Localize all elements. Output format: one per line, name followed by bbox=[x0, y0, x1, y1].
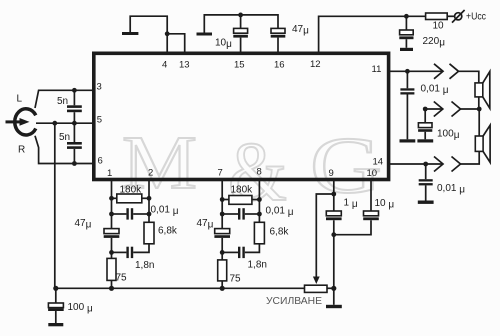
svg-text:180k: 180k bbox=[231, 185, 254, 196]
svg-text:14: 14 bbox=[373, 157, 384, 168]
svg-text:1,8n: 1,8n bbox=[135, 260, 154, 271]
svg-text:6,8k: 6,8k bbox=[158, 226, 178, 237]
svg-text:10μ: 10μ bbox=[215, 38, 232, 51]
svg-text:УСИЛВАНЕ: УСИЛВАНЕ bbox=[266, 296, 322, 307]
svg-text:1: 1 bbox=[107, 168, 112, 179]
svg-text:15: 15 bbox=[234, 60, 245, 71]
svg-text:0,01 μ: 0,01 μ bbox=[151, 205, 179, 218]
svg-text:7: 7 bbox=[218, 168, 223, 179]
svg-text:0,01 μ: 0,01 μ bbox=[437, 183, 465, 196]
svg-text:R: R bbox=[18, 145, 25, 156]
svg-text:9: 9 bbox=[329, 168, 334, 179]
svg-text:0,01 μ: 0,01 μ bbox=[421, 84, 449, 97]
svg-text:1 μ: 1 μ bbox=[344, 198, 358, 211]
svg-text:4: 4 bbox=[162, 60, 167, 71]
svg-text:6: 6 bbox=[98, 156, 103, 167]
svg-text:8: 8 bbox=[257, 167, 262, 178]
svg-text:5: 5 bbox=[97, 115, 102, 126]
svg-text:47μ: 47μ bbox=[75, 218, 92, 231]
svg-text:5n: 5n bbox=[57, 96, 68, 107]
svg-text:10: 10 bbox=[367, 168, 378, 179]
svg-text:1,8n: 1,8n bbox=[248, 260, 267, 271]
svg-text:0,01 μ: 0,01 μ bbox=[266, 206, 294, 219]
svg-text:6,8k: 6,8k bbox=[270, 227, 290, 238]
svg-text:47μ: 47μ bbox=[292, 24, 309, 37]
svg-text:75: 75 bbox=[116, 273, 128, 284]
svg-text:13: 13 bbox=[179, 60, 190, 71]
svg-text:47μ: 47μ bbox=[197, 218, 214, 231]
svg-text:220μ: 220μ bbox=[423, 36, 446, 49]
svg-text:10 μ: 10 μ bbox=[375, 198, 395, 211]
svg-text:100 μ: 100 μ bbox=[68, 302, 93, 315]
svg-text:10: 10 bbox=[433, 21, 445, 32]
svg-text:L: L bbox=[17, 94, 23, 105]
svg-text:12: 12 bbox=[310, 59, 321, 70]
svg-text:2: 2 bbox=[148, 168, 153, 179]
svg-text:+Ucc: +Ucc bbox=[466, 11, 486, 22]
svg-text:75: 75 bbox=[230, 274, 242, 285]
svg-text:100μ: 100μ bbox=[437, 129, 460, 142]
svg-text:16: 16 bbox=[274, 60, 285, 71]
svg-text:5n: 5n bbox=[59, 132, 70, 143]
svg-text:3: 3 bbox=[97, 82, 102, 93]
svg-text:180k: 180k bbox=[120, 185, 143, 196]
svg-text:11: 11 bbox=[372, 64, 382, 75]
